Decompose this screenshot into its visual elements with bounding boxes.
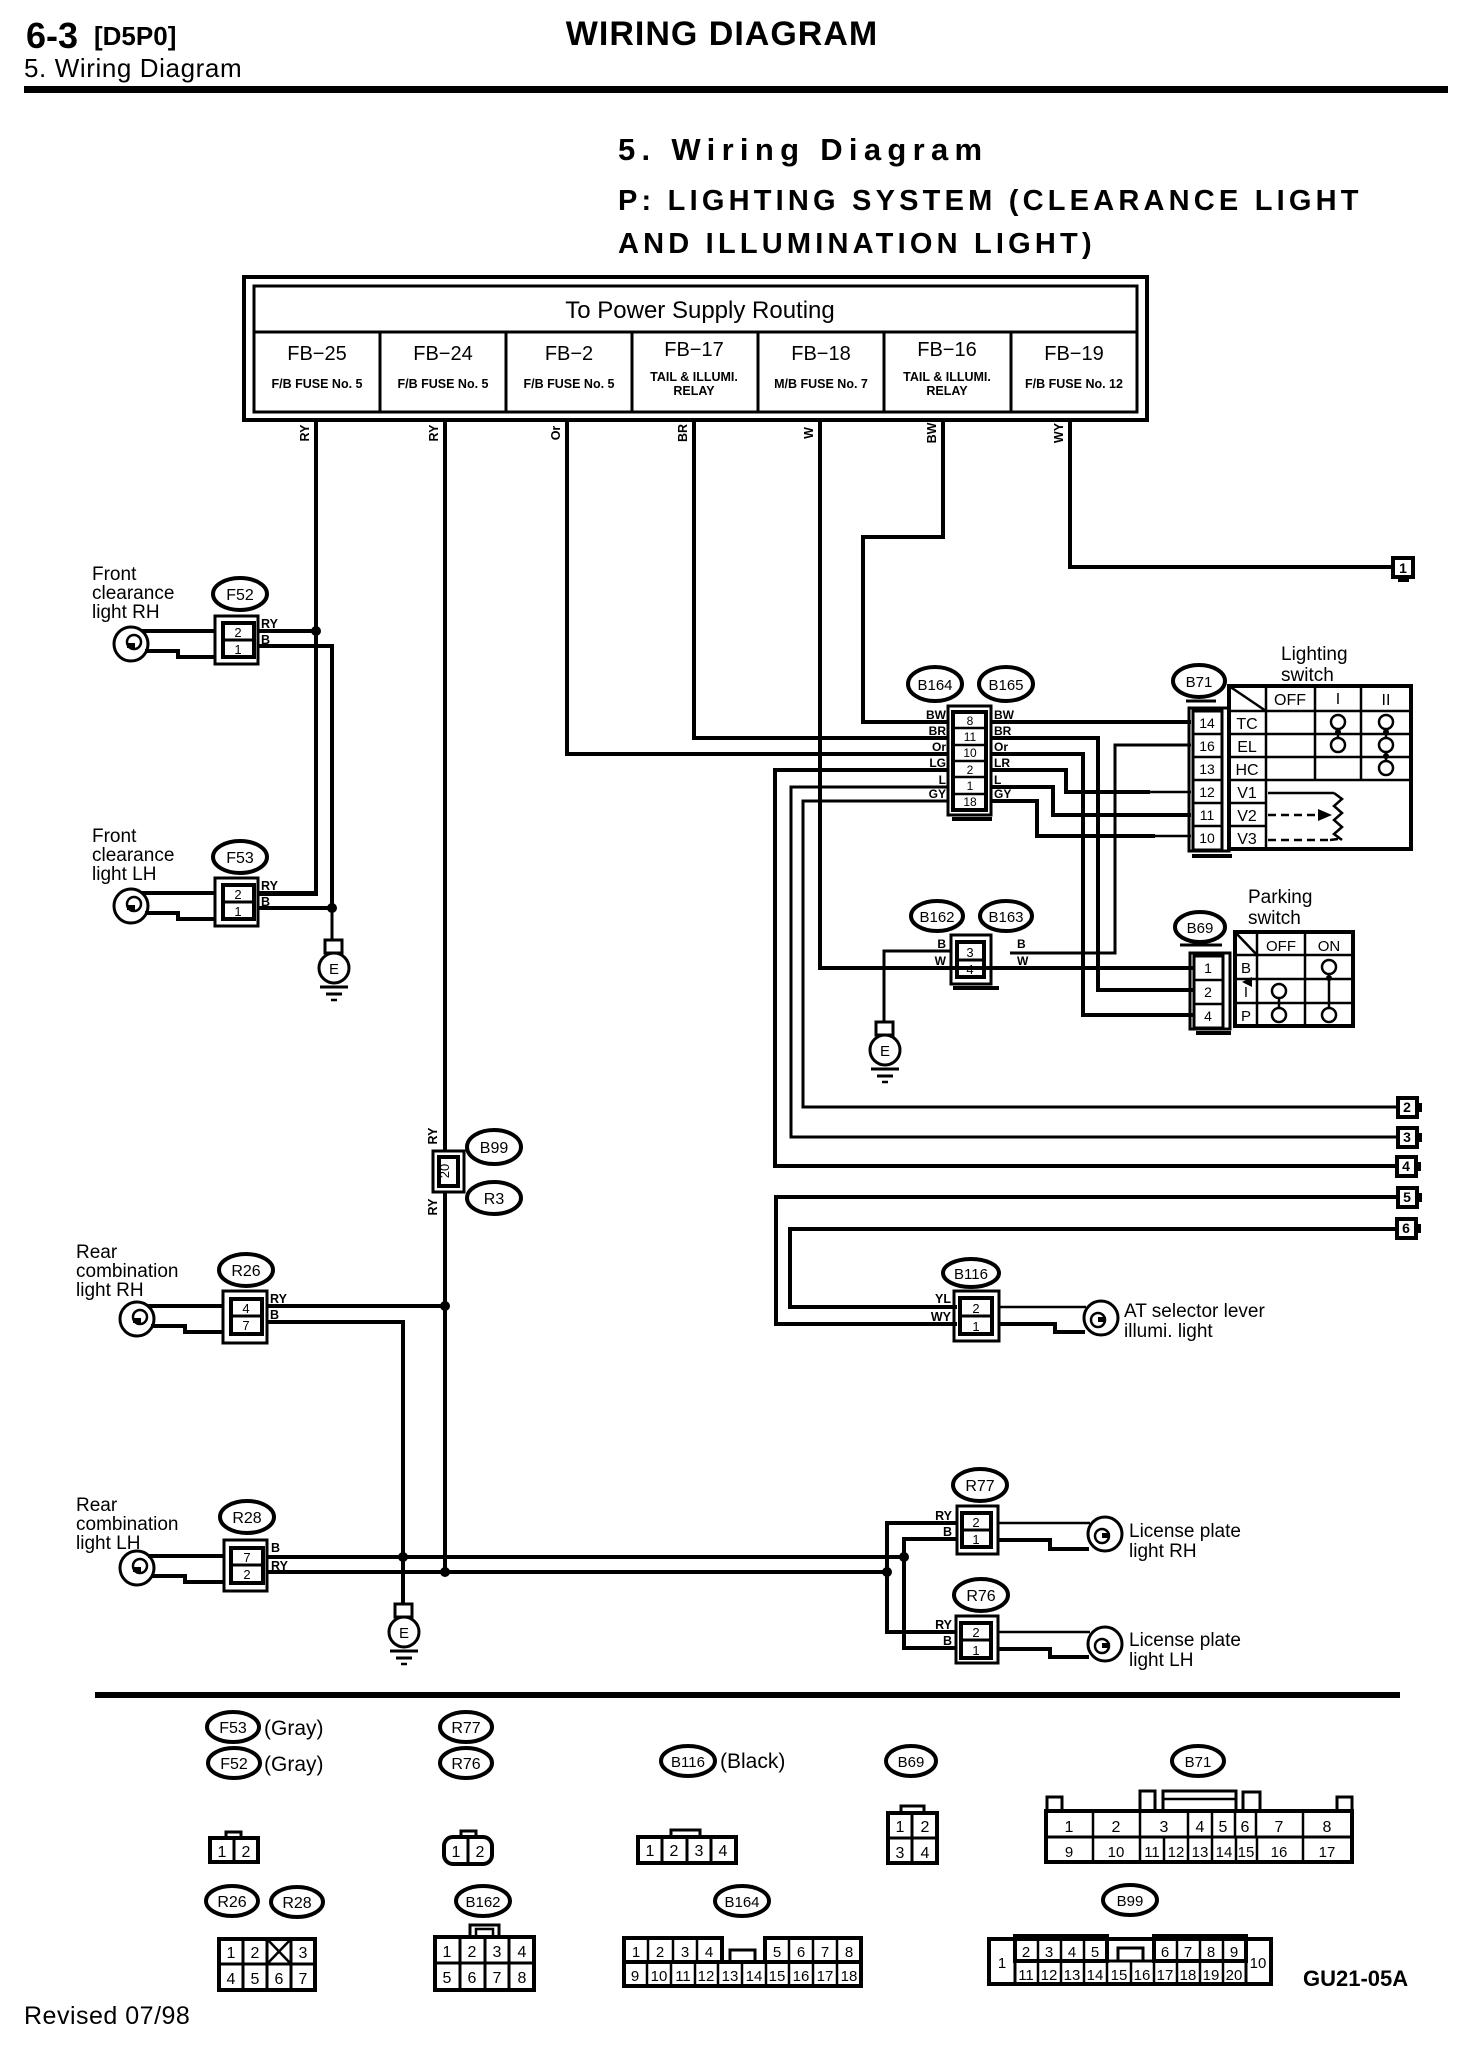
svg-text:B164: B164 (917, 677, 952, 694)
connector oval R77 (953, 1469, 1007, 1501)
parking switch table frame (1235, 932, 1353, 1026)
legend oval F53 (207, 1712, 259, 1742)
legend oval R28 (271, 1887, 323, 1917)
svg-text:RELAY: RELAY (926, 384, 968, 398)
svg-text:14: 14 (1199, 715, 1215, 731)
svg-text:P: LIGHTING SYSTEM (CLEARANCE: P: LIGHTING SYSTEM (CLEARANCE LIGHT (618, 185, 1363, 217)
wire RY drop to R76 pin 2 (887, 1572, 956, 1632)
svg-text:Revised 07/98: Revised 07/98 (24, 2002, 190, 2030)
wire B163 B row up to B71 pin 16 (1010, 745, 1191, 953)
svg-text:11: 11 (1200, 807, 1215, 823)
connector F52 box (215, 616, 258, 664)
svg-text:13: 13 (1192, 1844, 1209, 1861)
lighting switch contacts circles (1331, 715, 1393, 775)
svg-text:FB−2: FB−2 (545, 343, 593, 365)
svg-text:F53: F53 (226, 850, 254, 867)
svg-text:RY: RY (298, 424, 312, 442)
svg-text:18: 18 (963, 795, 977, 809)
svg-text:16: 16 (1271, 1844, 1288, 1861)
svg-text:10: 10 (1250, 1955, 1267, 1972)
svg-text:13: 13 (722, 1968, 739, 1985)
legend connector R26/R28 type (219, 1939, 315, 1990)
svg-text:1: 1 (234, 642, 241, 657)
legend oval B69 (886, 1746, 936, 1776)
svg-text:15: 15 (769, 1968, 786, 1985)
svg-text:ON: ON (1318, 938, 1341, 955)
svg-text:R28: R28 (282, 1895, 311, 1912)
svg-text:18: 18 (841, 1968, 858, 1985)
legend connector F52/F53 type (210, 1832, 258, 1862)
svg-text:17: 17 (1319, 1844, 1336, 1861)
parking switch contact links (1279, 974, 1329, 1008)
svg-text:OFF: OFF (1266, 938, 1296, 955)
ground E front clearance (319, 940, 349, 1000)
wire edge 6 to B116 pin 2 YL (790, 1229, 1397, 1307)
svg-text:L: L (939, 773, 946, 787)
svg-text:3: 3 (966, 945, 973, 960)
svg-text:WIRING DIAGRAM: WIRING DIAGRAM (566, 15, 878, 53)
wire labels right of B165 (994, 708, 1015, 801)
connector F53 box (215, 878, 258, 926)
svg-text:I: I (1244, 984, 1248, 1001)
wire BW B165 to B71 pin 14 (991, 720, 1191, 724)
svg-text:B: B (270, 1308, 279, 1322)
svg-text:1: 1 (1204, 960, 1212, 976)
svg-text:B165: B165 (988, 677, 1023, 694)
connector R28 box (224, 1540, 267, 1591)
svg-text:20: 20 (437, 1164, 452, 1178)
svg-text:7: 7 (821, 1944, 829, 1961)
parking switch contacts circles (1272, 960, 1336, 1022)
svg-text:2: 2 (243, 1567, 250, 1582)
wire thin into pin 12 (1150, 791, 1191, 794)
svg-text:4: 4 (1204, 1008, 1212, 1024)
svg-text:2: 2 (234, 887, 241, 902)
svg-text:18: 18 (1180, 1967, 1197, 1984)
edge connector 3 (1398, 1128, 1422, 1147)
svg-text:R77: R77 (965, 1478, 994, 1495)
connector oval B164 (908, 667, 962, 701)
svg-text:3: 3 (1045, 1944, 1053, 1961)
rheostat V3 dashed line (1268, 839, 1330, 842)
power supply box outer (244, 277, 1147, 420)
bulb AT selector (1084, 1301, 1118, 1335)
svg-text:Front: Front (92, 564, 137, 585)
wire GY B165 to B71 pin 10 (991, 801, 1155, 836)
wire labels left of B162 (935, 937, 947, 968)
svg-text:3: 3 (299, 1945, 308, 1962)
wire B162 B row to ground (884, 951, 951, 1022)
svg-text:M/B FUSE No. 7: M/B FUSE No. 7 (774, 377, 868, 391)
svg-text:8: 8 (518, 1970, 527, 1987)
svg-text:17: 17 (1157, 1967, 1174, 1984)
svg-text:B: B (943, 1634, 952, 1648)
svg-text:1: 1 (632, 1944, 640, 1961)
svg-text:1: 1 (443, 1944, 452, 1961)
connector B164/B165 box (948, 706, 992, 819)
wire F52 pin2 RY to bus (258, 629, 316, 633)
svg-text:2: 2 (251, 1945, 260, 1962)
svg-text:1: 1 (972, 1532, 979, 1547)
edge connector 4 (1397, 1157, 1421, 1176)
svg-text:RY: RY (935, 1618, 953, 1632)
svg-text:L: L (994, 773, 1001, 787)
bulb wires R77 (998, 1522, 1090, 1525)
svg-text:Or: Or (994, 740, 1008, 754)
svg-text:GU21-05A: GU21-05A (1303, 1966, 1408, 1991)
svg-text:2: 2 (1403, 1099, 1411, 1115)
svg-text:W: W (802, 427, 816, 439)
svg-text:switch: switch (1281, 665, 1334, 686)
svg-text:Or: Or (549, 426, 563, 441)
svg-text:Parking: Parking (1248, 887, 1312, 908)
wire edge 5 to B116 pin 1 WY (776, 1197, 1398, 1324)
svg-text:6: 6 (1241, 1819, 1250, 1836)
svg-text:2: 2 (1112, 1819, 1121, 1836)
junction dot R26 RY tap (440, 1301, 450, 1311)
svg-text:8: 8 (1323, 1819, 1332, 1836)
svg-text:5: 5 (773, 1944, 781, 1961)
junction dot RY row (882, 1567, 892, 1577)
svg-text:8: 8 (967, 714, 974, 728)
svg-text:(Gray): (Gray) (264, 1717, 324, 1740)
svg-text:B164: B164 (724, 1894, 759, 1911)
wire B riser to R77 pin 1 (904, 1539, 957, 1557)
svg-text:14: 14 (746, 1968, 763, 1985)
svg-text:RY: RY (935, 1509, 953, 1523)
connector oval R28 (220, 1501, 274, 1533)
svg-text:12: 12 (698, 1968, 715, 1985)
svg-text:3: 3 (1403, 1129, 1411, 1145)
svg-text:15: 15 (1238, 1844, 1255, 1861)
wire WY from FB-19 to edge connector 1 (1070, 420, 1393, 567)
connector B71 pin column (1189, 708, 1232, 856)
legend connector R77/R76 type (444, 1831, 492, 1864)
legend connector B116 type (638, 1830, 736, 1863)
svg-text:F52: F52 (220, 1756, 248, 1773)
svg-text:BW: BW (925, 422, 939, 443)
svg-text:B71: B71 (1185, 1754, 1212, 1771)
svg-text:7: 7 (1275, 1819, 1284, 1836)
junction dot F53 B ground (327, 903, 337, 913)
svg-text:Rear: Rear (76, 1495, 118, 1516)
svg-text:B69: B69 (1187, 920, 1214, 937)
svg-text:B163: B163 (988, 909, 1023, 926)
legend oval B116 (661, 1746, 715, 1776)
svg-text:Lighting: Lighting (1281, 644, 1348, 665)
svg-text:3: 3 (1160, 1819, 1169, 1836)
svg-text:16: 16 (1134, 1967, 1151, 1984)
svg-text:4: 4 (1402, 1158, 1410, 1174)
svg-text:7: 7 (493, 1970, 502, 1987)
svg-text:4: 4 (921, 1845, 930, 1862)
svg-text:F52: F52 (226, 587, 254, 604)
legend connector B69 type (888, 1806, 937, 1863)
svg-text:5. Wiring Diagram: 5. Wiring Diagram (24, 53, 242, 83)
bulb wires R28 (148, 1554, 224, 1558)
svg-text:TAIL & ILLUMI.: TAIL & ILLUMI. (650, 370, 738, 384)
wire L B165 to B71 pin 11 (991, 787, 1191, 815)
bulb front clearance RH (114, 627, 148, 661)
legend oval F52 (208, 1748, 260, 1778)
ground E rear combination (389, 1604, 419, 1664)
edge connector 1 (1393, 558, 1413, 582)
bulb wires R26 (148, 1304, 223, 1308)
connector oval B99 (467, 1130, 521, 1164)
svg-text:To Power Supply Routing: To Power Supply Routing (565, 297, 834, 324)
parking switch row labels (1241, 960, 1251, 1025)
svg-text:R26: R26 (217, 1894, 246, 1911)
svg-text:9: 9 (1065, 1844, 1073, 1861)
wire BR from FB-17 down to B164 pin 11 (694, 420, 948, 738)
svg-text:BR: BR (994, 724, 1012, 738)
connector B116 box (954, 1291, 999, 1341)
legend connector B164 type (624, 1938, 861, 1986)
svg-text:2: 2 (972, 1625, 979, 1640)
label front clearance light RH (92, 564, 174, 623)
wire RY from FB-24 down (lower segment to R28) (443, 1192, 447, 1572)
svg-text:4: 4 (242, 1301, 249, 1316)
svg-text:11: 11 (675, 1968, 691, 1985)
svg-text:4: 4 (966, 962, 973, 977)
junction dot F52 RY tap (311, 626, 321, 636)
wire F53 pin1 B to ground bus (258, 906, 332, 910)
svg-text:16: 16 (1199, 738, 1215, 754)
connector oval B162 (911, 901, 963, 931)
svg-text:11: 11 (964, 730, 977, 744)
wire RY from FB-25 down to F53 (258, 420, 316, 894)
svg-text:R3: R3 (484, 1191, 505, 1208)
svg-text:7: 7 (1184, 1944, 1192, 1961)
svg-text:5: 5 (1219, 1819, 1228, 1836)
svg-text:4: 4 (518, 1944, 527, 1961)
svg-text:GY: GY (994, 787, 1011, 801)
svg-text:3: 3 (695, 1843, 704, 1860)
svg-text:1: 1 (998, 1955, 1006, 1972)
parking switch table lines (1235, 932, 1353, 1026)
label license plate light LH (1129, 1630, 1241, 1671)
svg-text:1: 1 (646, 1843, 655, 1860)
svg-text:Front: Front (92, 826, 137, 847)
svg-text:9: 9 (631, 1968, 639, 1985)
svg-text:RY: RY (426, 1127, 440, 1145)
svg-text:4: 4 (1068, 1944, 1076, 1961)
svg-text:1: 1 (972, 1643, 979, 1658)
svg-text:F/B FUSE No. 12: F/B FUSE No. 12 (1025, 377, 1123, 391)
svg-text:P: P (1241, 1008, 1251, 1025)
svg-text:TAIL & ILLUMI.: TAIL & ILLUMI. (903, 370, 991, 384)
legend connector B71 type (1046, 1791, 1352, 1862)
wire RY riser to R77 pin 2 (887, 1523, 957, 1572)
wire F53 pin2 RY to bus (258, 891, 316, 895)
svg-text:B: B (1017, 937, 1026, 951)
svg-text:RY: RY (261, 879, 279, 893)
edge connector 5 (1398, 1188, 1422, 1207)
svg-text:B: B (937, 937, 946, 951)
wire B drop to R76 pin 1 (904, 1557, 956, 1648)
svg-text:combination: combination (76, 1261, 178, 1282)
svg-text:B: B (271, 1541, 280, 1555)
svg-text:2: 2 (234, 625, 241, 640)
connector oval B71 (1173, 665, 1225, 701)
svg-text:F/B FUSE No. 5: F/B FUSE No. 5 (524, 377, 615, 391)
svg-text:11: 11 (1144, 1844, 1160, 1861)
fuse cell FB-24 (398, 343, 489, 391)
svg-text:10: 10 (1199, 830, 1215, 846)
bulb wires F52 (142, 629, 215, 633)
svg-text:Or: Or (932, 740, 946, 754)
svg-text:EL: EL (1237, 739, 1257, 756)
svg-text:3: 3 (681, 1944, 689, 1961)
lighting switch row labels (1235, 716, 1258, 848)
svg-text:15: 15 (1111, 1967, 1128, 1984)
svg-text:V2: V2 (1237, 808, 1257, 825)
svg-text:E: E (329, 961, 339, 978)
rheostat zigzag resistor (1334, 793, 1342, 840)
bulb front clearance LH (114, 889, 148, 923)
svg-text:2: 2 (242, 1844, 251, 1861)
label rear combination light RH (76, 1242, 178, 1301)
svg-text:clearance: clearance (92, 845, 174, 866)
svg-text:6: 6 (468, 1970, 477, 1987)
svg-text:B: B (1241, 960, 1251, 977)
bulb license RH (1088, 1517, 1122, 1551)
connector oval B116 (943, 1259, 999, 1287)
svg-text:16: 16 (793, 1968, 810, 1985)
svg-text:RY: RY (427, 424, 441, 442)
svg-text:12: 12 (1041, 1967, 1058, 1984)
svg-text:TC: TC (1236, 716, 1257, 733)
svg-text:B116: B116 (671, 1754, 705, 1771)
svg-text:2: 2 (1204, 984, 1212, 1000)
lighting switch contact links (1338, 729, 1386, 761)
lighting switch table frame (1229, 686, 1411, 849)
svg-text:F53: F53 (219, 1720, 247, 1737)
svg-text:7: 7 (299, 1971, 308, 1988)
svg-text:YL: YL (935, 1292, 951, 1306)
inline connector 20 (433, 1151, 464, 1192)
connector B69 pin column (1190, 953, 1231, 1033)
svg-text:10: 10 (963, 746, 977, 760)
junction dot B row (899, 1552, 909, 1562)
svg-text:4: 4 (227, 1971, 236, 1988)
svg-text:FB−25: FB−25 (287, 343, 346, 365)
svg-text:8: 8 (1207, 1944, 1215, 1961)
svg-text:RY: RY (270, 1292, 288, 1306)
relay cell FB-17 (650, 339, 738, 398)
svg-text:6-3: 6-3 (26, 15, 78, 56)
bulb rear combination RH (120, 1302, 154, 1336)
svg-text:2: 2 (1022, 1944, 1030, 1961)
svg-text:4: 4 (1196, 1819, 1205, 1836)
wire labels left of B164 (926, 708, 947, 801)
edge connector 2 (1398, 1098, 1422, 1117)
svg-text:R76: R76 (451, 1756, 480, 1773)
junction dot R28 RY tee (440, 1567, 450, 1577)
svg-text:2: 2 (656, 1944, 664, 1961)
svg-text:1: 1 (234, 904, 241, 919)
label front clearance light LH (92, 826, 174, 885)
svg-text:R76: R76 (966, 1588, 995, 1605)
wire LR B165 to B71 pin 12 (991, 770, 1150, 792)
svg-text:light RH: light RH (92, 602, 160, 623)
svg-text:FB−24: FB−24 (413, 343, 472, 365)
power supply box header divider (254, 331, 1137, 334)
legend connector B99 type (989, 1936, 1271, 1984)
svg-text:2: 2 (972, 1515, 979, 1530)
parking switch B row marker (1242, 977, 1252, 987)
svg-text:5: 5 (1403, 1189, 1411, 1205)
svg-text:FB−16: FB−16 (917, 339, 976, 361)
svg-text:B116: B116 (954, 1266, 988, 1283)
svg-text:5: 5 (443, 1970, 452, 1987)
wire R28 B row to license lights (267, 1555, 904, 1559)
svg-text:6: 6 (1402, 1220, 1410, 1236)
connector oval B69 (1175, 912, 1225, 945)
svg-text:1: 1 (972, 1319, 979, 1334)
svg-text:light RH: light RH (1129, 1541, 1197, 1562)
wire BW from FB-16 jog down to B164 pin 8 (863, 420, 948, 722)
svg-text:light LH: light LH (92, 864, 156, 885)
svg-text:FB−17: FB−17 (664, 339, 723, 361)
svg-text:12: 12 (1199, 784, 1215, 800)
svg-text:5. Wiring Diagram: 5. Wiring Diagram (618, 132, 988, 167)
svg-text:1: 1 (227, 1945, 236, 1962)
svg-text:V1: V1 (1237, 785, 1257, 802)
connector B162/B163 box (951, 935, 999, 988)
svg-text:7: 7 (242, 1318, 249, 1333)
svg-text:1: 1 (218, 1844, 227, 1861)
legend oval B99 (1103, 1885, 1157, 1915)
svg-text:RY: RY (426, 1198, 440, 1216)
label lighting switch (1281, 644, 1348, 686)
svg-text:V3: V3 (1237, 831, 1257, 848)
svg-text:R77: R77 (451, 1720, 480, 1737)
svg-text:E: E (399, 1625, 409, 1642)
svg-text:W: W (935, 954, 947, 968)
svg-text:HC: HC (1235, 762, 1258, 779)
svg-text:R26: R26 (231, 1263, 260, 1280)
wire R28 RY row to license lights (267, 1570, 887, 1574)
svg-text:E: E (880, 1043, 890, 1060)
svg-text:I: I (1336, 691, 1340, 708)
connector oval R3 (467, 1182, 521, 1214)
svg-text:13: 13 (1199, 761, 1215, 777)
power supply cell dividers (379, 332, 382, 412)
fuse cell FB-18 (774, 343, 868, 391)
svg-text:AT selector lever: AT selector lever (1124, 1301, 1265, 1322)
bulb rear combination LH (120, 1551, 154, 1585)
svg-text:2: 2 (921, 1819, 930, 1836)
header rule (24, 86, 1448, 93)
svg-text:B: B (943, 1525, 952, 1539)
bulb wires R76 (998, 1631, 1090, 1634)
legend oval R26 (206, 1886, 258, 1916)
connector oval B165 (979, 667, 1033, 701)
svg-text:1: 1 (1065, 1819, 1074, 1836)
svg-text:AND ILLUMINATION LIGHT): AND ILLUMINATION LIGHT) (618, 228, 1096, 260)
fuse cell FB-25 (272, 343, 363, 391)
wire LG row to edge connector 4 (775, 770, 1397, 1166)
label rear combination light LH (76, 1495, 178, 1554)
svg-text:BR: BR (676, 424, 690, 442)
legend connector B162 type (435, 1925, 534, 1990)
svg-text:WY: WY (931, 1310, 952, 1324)
connector oval B163 (980, 901, 1032, 931)
svg-text:10: 10 (1108, 1844, 1125, 1861)
svg-text:10: 10 (651, 1968, 668, 1985)
svg-text:Rear: Rear (76, 1242, 118, 1263)
